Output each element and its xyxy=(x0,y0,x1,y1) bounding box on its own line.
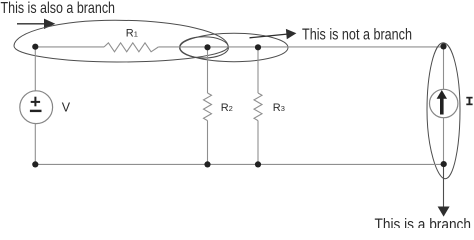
wire R3 branch upper xyxy=(257,47,259,93)
svg-text:R2: R2 xyxy=(221,102,233,114)
arrow to branch R1 (top-left, pointing right) xyxy=(17,19,55,29)
node above R2 junction dot xyxy=(204,44,210,50)
svg-text:R1: R1 xyxy=(126,28,138,40)
svg-text:R3: R3 xyxy=(273,102,285,114)
wire R2 branch lower xyxy=(207,121,209,165)
annotation oval around node above R2 xyxy=(180,37,229,58)
svg-text:V: V xyxy=(62,101,71,115)
node below R2 junction dot xyxy=(204,161,210,167)
wire top rail left segment (node A to R1) xyxy=(35,46,104,48)
arrow down to "This is a branch" xyxy=(438,164,450,216)
wire bottom rail xyxy=(35,163,443,165)
node bottom-left junction dot xyxy=(32,161,38,167)
resistor R3 xyxy=(254,93,262,121)
annotation oval around current source branch xyxy=(427,43,460,179)
svg-text:This is also a branch: This is also a branch xyxy=(1,0,116,17)
svg-text:This is a branch: This is a branch xyxy=(375,217,472,229)
wire left vertical upper (node A to V source) xyxy=(34,47,36,91)
wire left vertical lower (V source to bottom rail) xyxy=(34,124,36,165)
node top-right junction dot xyxy=(440,43,446,49)
wire right vertical lower (I source to bottom rail) xyxy=(443,118,445,165)
wire R3 branch lower xyxy=(257,121,259,165)
node below R3 junction dot xyxy=(255,161,261,167)
current source arrow (up) xyxy=(437,90,447,115)
node A top-left junction dot xyxy=(32,44,38,50)
annotation oval around branch R1 xyxy=(14,20,228,62)
wire R2 branch upper xyxy=(207,47,209,93)
resistor R1 xyxy=(104,43,158,52)
voltage source minus sign xyxy=(30,110,42,112)
node above R3 junction dot xyxy=(255,44,261,50)
annotation oval around wire segment between nodes (not a branch) xyxy=(180,33,288,61)
wire right vertical upper (top-right node to I source) xyxy=(443,47,445,89)
resistor R2 xyxy=(204,93,212,121)
svg-text:This is not a branch: This is not a branch xyxy=(302,27,412,44)
voltage source V circle xyxy=(20,91,53,124)
node bottom-right junction dot xyxy=(441,161,447,167)
voltage source plus sign xyxy=(31,97,40,107)
arrow from oval to "This is not a branch" xyxy=(250,29,297,39)
current source I circle xyxy=(430,89,458,117)
wire top rail right segment (R1 to top-right node) xyxy=(158,46,443,48)
label I xyxy=(466,97,472,105)
